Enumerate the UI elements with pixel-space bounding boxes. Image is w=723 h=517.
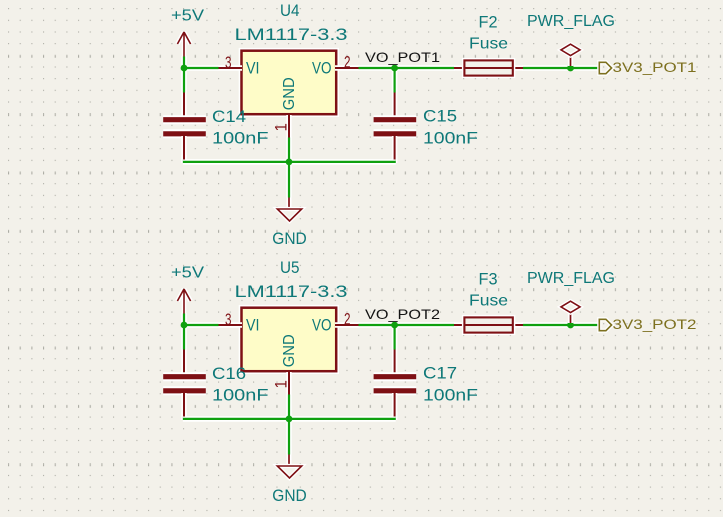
pin 2 VO of U5 bbox=[335, 311, 359, 329]
wire GND pin to ground symbol bbox=[286, 394, 292, 455]
svg-text:LM1117-3.3: LM1117-3.3 bbox=[235, 25, 348, 44]
svg-text:100nF: 100nF bbox=[212, 129, 269, 148]
junction at PWR_FLAG bbox=[567, 322, 574, 329]
svg-text:Fuse: Fuse bbox=[469, 292, 508, 309]
svg-text:100nF: 100nF bbox=[423, 129, 478, 148]
capacitor C15 100nF bbox=[374, 93, 478, 160]
pin 3 VI of U5 bbox=[219, 311, 243, 329]
svg-text:VO: VO bbox=[312, 315, 332, 334]
svg-text:C15: C15 bbox=[423, 106, 457, 125]
svg-text:C14: C14 bbox=[212, 107, 246, 126]
svg-text:PWR_FLAG: PWR_FLAG bbox=[527, 13, 615, 30]
junction at PWR_FLAG bbox=[567, 65, 574, 72]
svg-text:+5V: +5V bbox=[171, 8, 204, 25]
svg-text:C16: C16 bbox=[212, 364, 246, 383]
junction at +5V node bbox=[181, 65, 188, 72]
svg-text:2: 2 bbox=[344, 311, 351, 329]
ground symbol GND bbox=[272, 455, 307, 506]
svg-text:1: 1 bbox=[273, 380, 291, 388]
power symbol +5V bbox=[171, 8, 204, 57]
wire GND pin to ground symbol bbox=[286, 137, 292, 198]
svg-text:C17: C17 bbox=[423, 363, 457, 382]
wire +5V stub to junction bbox=[181, 56, 187, 69]
svg-text:GND: GND bbox=[272, 487, 307, 505]
junction at +5V node bbox=[181, 322, 188, 329]
svg-text:U4: U4 bbox=[280, 1, 300, 20]
svg-text:GND: GND bbox=[272, 230, 307, 248]
wire VO pin to fuse bbox=[358, 65, 455, 71]
fuse F3 bbox=[454, 269, 523, 332]
junction at ground rail bbox=[286, 159, 293, 166]
svg-text:GND: GND bbox=[281, 334, 298, 367]
junction at C17 top bbox=[391, 322, 398, 329]
svg-text:LM1117-3.3: LM1117-3.3 bbox=[235, 282, 348, 301]
ground symbol GND bbox=[272, 198, 307, 249]
svg-text:3V3_POT2: 3V3_POT2 bbox=[613, 317, 697, 332]
wire fuse to hierarchical label bbox=[522, 322, 600, 328]
pin 1 GND of U5 bbox=[273, 372, 291, 395]
svg-text:Fuse: Fuse bbox=[469, 35, 508, 52]
svg-text:3: 3 bbox=[225, 54, 232, 72]
wire junction to VI pin bbox=[183, 65, 219, 71]
svg-text:F3: F3 bbox=[479, 269, 498, 288]
regulator U4 LM1117-3.3 bbox=[235, 1, 348, 114]
wire bottom rail bbox=[183, 159, 396, 165]
hierarchical label 3V3_POT2 bbox=[599, 317, 696, 332]
svg-text:VI: VI bbox=[246, 58, 260, 77]
power flag PWR_FLAG bbox=[527, 270, 615, 323]
svg-text:100nF: 100nF bbox=[423, 386, 478, 405]
wire junction to VI pin bbox=[183, 322, 219, 328]
svg-text:GND: GND bbox=[281, 77, 298, 110]
wire bottom rail bbox=[183, 416, 396, 422]
pin 2 VO of U4 bbox=[335, 54, 359, 72]
svg-text:1: 1 bbox=[273, 123, 291, 131]
junction at ground rail bbox=[286, 416, 293, 423]
wire C14 bottom to rail bbox=[181, 155, 187, 163]
capacitor C16 100nF bbox=[163, 350, 268, 417]
wire fuse to hierarchical label bbox=[522, 65, 600, 71]
power flag PWR_FLAG bbox=[527, 13, 615, 66]
fuse F2 bbox=[454, 12, 523, 75]
wire C15 bottom to rail bbox=[392, 155, 398, 163]
wire junction down to C15 top bbox=[392, 68, 398, 93]
wire C16 bottom to rail bbox=[181, 412, 187, 420]
svg-text:+5V: +5V bbox=[171, 265, 204, 282]
wire VO pin to fuse bbox=[358, 322, 455, 328]
wire junction down to C17 top bbox=[392, 325, 398, 350]
junction at C15 top bbox=[391, 65, 398, 72]
wire junction down to C14 top bbox=[181, 68, 187, 93]
svg-text:VI: VI bbox=[246, 315, 260, 334]
power symbol +5V bbox=[171, 265, 204, 314]
svg-text:F2: F2 bbox=[479, 12, 498, 31]
wire junction down to C16 top bbox=[181, 325, 187, 350]
svg-text:VO_POT1: VO_POT1 bbox=[365, 49, 440, 65]
pin 1 GND of U4 bbox=[273, 115, 291, 138]
wire +5V stub to junction bbox=[181, 313, 187, 326]
svg-text:100nF: 100nF bbox=[212, 386, 269, 405]
hierarchical label 3V3_POT1 bbox=[599, 60, 696, 75]
svg-text:2: 2 bbox=[344, 54, 351, 72]
wire C17 bottom to rail bbox=[392, 412, 398, 420]
svg-text:U5: U5 bbox=[280, 258, 300, 277]
svg-text:3V3_POT1: 3V3_POT1 bbox=[613, 60, 697, 75]
svg-text:VO: VO bbox=[312, 58, 332, 77]
capacitor C17 100nF bbox=[374, 350, 478, 417]
svg-text:3: 3 bbox=[225, 311, 232, 329]
svg-text:PWR_FLAG: PWR_FLAG bbox=[527, 270, 615, 287]
pin 3 VI of U4 bbox=[219, 54, 243, 72]
capacitor C14 100nF bbox=[163, 93, 268, 160]
svg-text:VO_POT2: VO_POT2 bbox=[365, 306, 440, 322]
regulator U5 LM1117-3.3 bbox=[235, 258, 348, 371]
